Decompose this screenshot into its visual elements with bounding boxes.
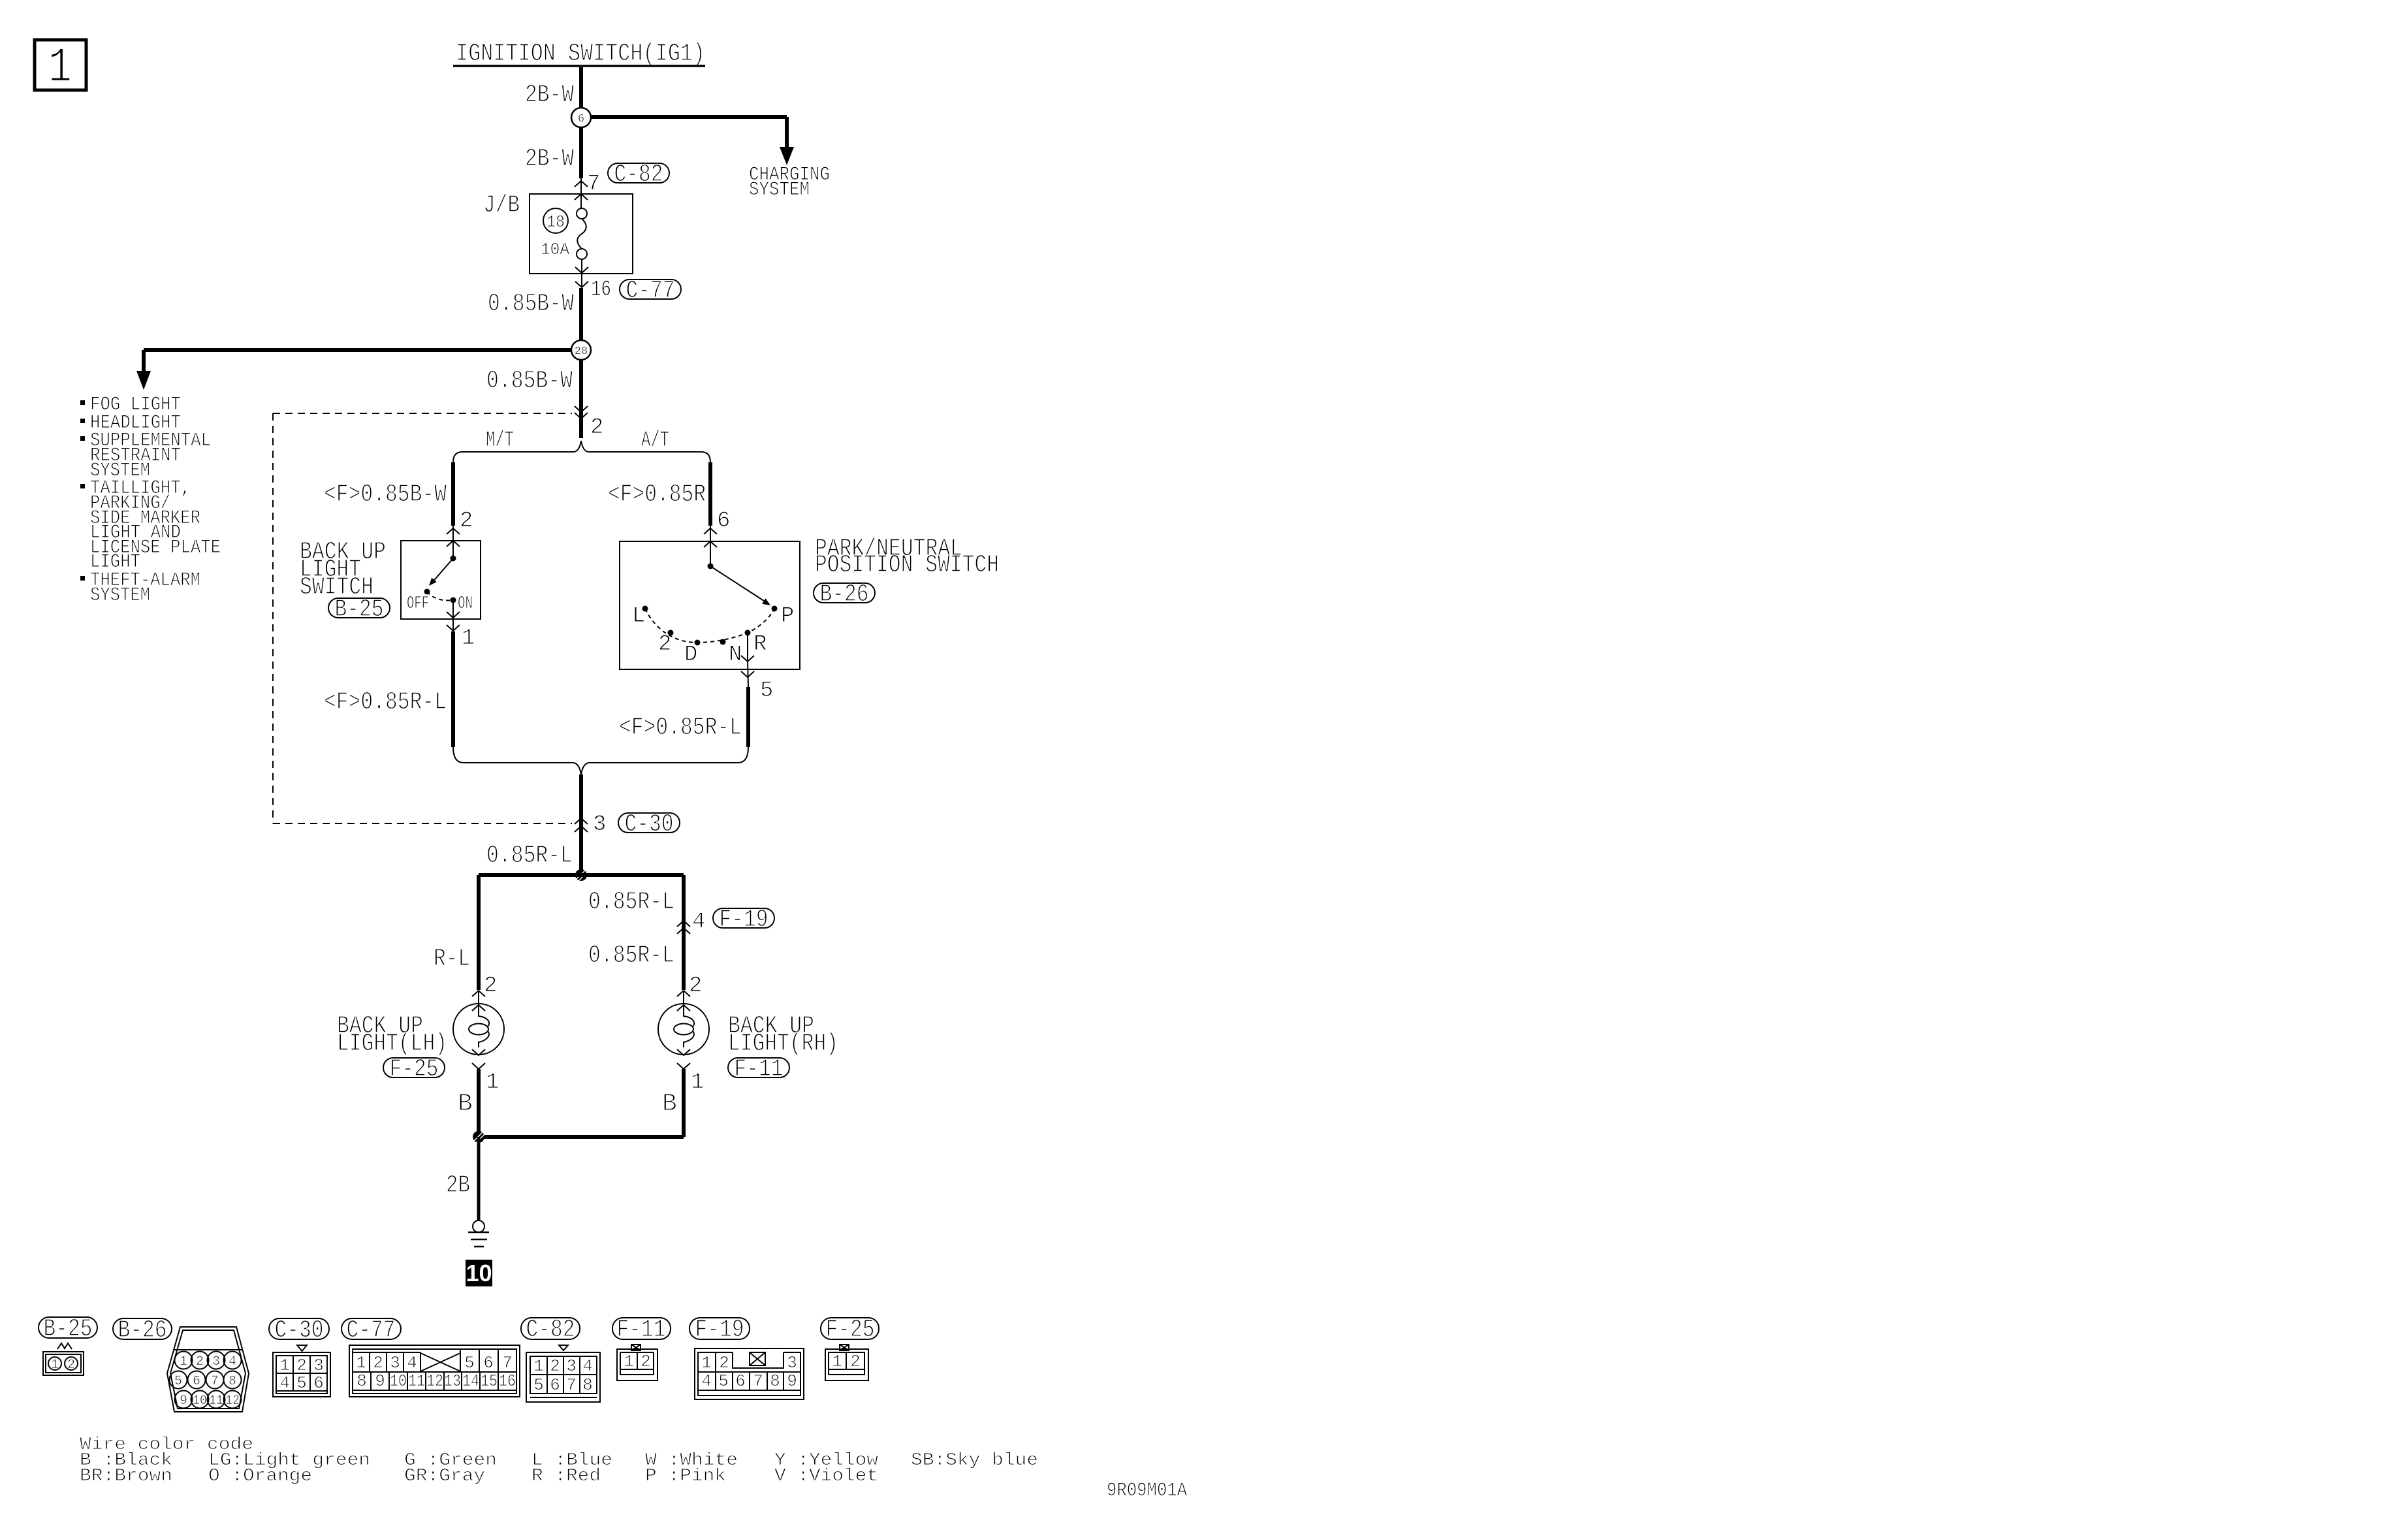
connector chevron F-25 pin 1 bbox=[472, 1063, 485, 1069]
connector ref F-11 beside lamp bbox=[728, 1058, 789, 1077]
svg-text:5: 5 bbox=[174, 1374, 182, 1389]
svg-text:6: 6 bbox=[578, 113, 584, 125]
svg-text:2: 2 bbox=[689, 974, 702, 998]
connector chevron C-30 pin 2 upper bbox=[575, 406, 588, 412]
wire M/T branch to merge bbox=[451, 631, 455, 747]
svg-text:6: 6 bbox=[483, 1353, 494, 1373]
svg-text:9: 9 bbox=[787, 1371, 797, 1391]
park/neutral position switch B-26 box bbox=[620, 541, 800, 669]
svg-text:C-30: C-30 bbox=[625, 810, 674, 838]
connector F-19 label bbox=[689, 1318, 750, 1339]
ground reference box 10 bbox=[466, 1260, 492, 1286]
connector ref B-26 bbox=[814, 583, 875, 603]
fuse 18 10A bbox=[543, 208, 568, 233]
svg-text:B: B bbox=[458, 1090, 473, 1118]
svg-text:N: N bbox=[729, 643, 742, 667]
connector B-26 label bbox=[113, 1318, 172, 1339]
connector chevron B-26 pin 5 lower bbox=[741, 671, 754, 677]
svg-text:2: 2 bbox=[67, 1358, 75, 1373]
svg-text:2B-W: 2B-W bbox=[525, 145, 574, 173]
svg-text:ON: ON bbox=[458, 594, 473, 614]
wire thin into switch bbox=[452, 526, 454, 558]
svg-text:2: 2 bbox=[550, 1356, 560, 1376]
svg-text:8: 8 bbox=[582, 1375, 593, 1395]
svg-text:2: 2 bbox=[484, 974, 497, 998]
svg-text:2B-W: 2B-W bbox=[525, 81, 574, 109]
svg-text:5: 5 bbox=[718, 1371, 729, 1391]
connector chevron C-77 pin 16 lower bbox=[575, 281, 588, 287]
svg-text:2: 2 bbox=[850, 1352, 861, 1371]
wire thin into PNP switch bbox=[710, 526, 711, 566]
svg-text:1: 1 bbox=[279, 1356, 290, 1375]
svg-text:F-11: F-11 bbox=[735, 1055, 784, 1083]
svg-text:4: 4 bbox=[229, 1354, 236, 1369]
connector ref B-25 bbox=[328, 598, 390, 618]
contact N bbox=[720, 639, 726, 645]
wire horizontal to both lamps bbox=[479, 873, 684, 877]
svg-text:5: 5 bbox=[296, 1373, 307, 1393]
connector C-30 pinout bbox=[297, 1345, 307, 1351]
svg-text:6: 6 bbox=[717, 509, 730, 534]
connector chevron F-25 pin 2 bbox=[472, 991, 485, 996]
svg-text:6: 6 bbox=[313, 1373, 324, 1393]
svg-text:15: 15 bbox=[481, 1371, 498, 1391]
RH bulb filament bbox=[684, 1007, 694, 1027]
switch blade bbox=[432, 558, 453, 583]
switch common contact bbox=[451, 556, 456, 562]
svg-text:3: 3 bbox=[787, 1353, 797, 1373]
connector chevron B-25 pin 1 lower bbox=[447, 625, 460, 631]
svg-text:J/B: J/B bbox=[483, 191, 520, 219]
svg-text:13: 13 bbox=[444, 1371, 461, 1391]
connector C-77 pinout bbox=[349, 1345, 520, 1397]
svg-text:OFF: OFF bbox=[407, 594, 429, 614]
connector chevron B-26 pin 6 upper bbox=[704, 528, 717, 534]
svg-text:0.85B-W: 0.85B-W bbox=[488, 290, 574, 318]
wire ignition switch to junction 6 bbox=[579, 67, 583, 108]
wire PNP R contact down bbox=[747, 633, 748, 661]
connector chevron F-11 pin 1 bbox=[677, 1063, 690, 1069]
svg-text:7: 7 bbox=[587, 172, 600, 197]
connector ref F-19 bbox=[713, 908, 774, 928]
svg-text:F-11: F-11 bbox=[617, 1316, 666, 1344]
connector F-25 label bbox=[821, 1318, 879, 1339]
svg-text:9: 9 bbox=[375, 1371, 385, 1391]
svg-text:6: 6 bbox=[735, 1371, 746, 1391]
svg-text:1: 1 bbox=[356, 1353, 366, 1373]
svg-text:IGNITION SWITCH(IG1): IGNITION SWITCH(IG1) bbox=[456, 40, 705, 68]
svg-text:LIGHT(LH): LIGHT(LH) bbox=[337, 1030, 447, 1058]
svg-text:7: 7 bbox=[566, 1375, 577, 1395]
page number box 1 bbox=[35, 40, 86, 90]
title underline bus bbox=[453, 65, 705, 67]
svg-text:14: 14 bbox=[462, 1371, 479, 1391]
svg-text:F-25: F-25 bbox=[390, 1055, 439, 1083]
wire ground bus horizontal bbox=[479, 1135, 684, 1139]
svg-text:9: 9 bbox=[180, 1394, 187, 1409]
wire A/T branch to PNP switch bbox=[708, 462, 712, 526]
svg-text:4: 4 bbox=[692, 910, 705, 934]
svg-text:1: 1 bbox=[462, 626, 475, 651]
PNP common contact bbox=[708, 564, 714, 569]
wire A/T branch to merge bbox=[746, 687, 750, 747]
connector chevron B-26 pin 5 at switch edge bbox=[741, 656, 754, 661]
wire branch to charging system bbox=[591, 115, 787, 119]
wire down to systems arrow bbox=[142, 350, 146, 372]
junction splice to back up lights bbox=[575, 869, 587, 881]
svg-text:1: 1 bbox=[48, 40, 72, 96]
svg-text:3: 3 bbox=[593, 812, 606, 837]
svg-text:10: 10 bbox=[193, 1394, 207, 1409]
svg-text:GR:Gray: GR:Gray bbox=[404, 1467, 485, 1486]
svg-text:<F>0.85R-L: <F>0.85R-L bbox=[619, 714, 742, 742]
connector chevron B-25 pin 2 at switch edge bbox=[447, 541, 460, 547]
connector F-25 pinout bbox=[840, 1345, 849, 1350]
svg-text:11: 11 bbox=[408, 1371, 425, 1391]
svg-text:SB:Sky blue: SB:Sky blue bbox=[911, 1451, 1038, 1471]
svg-text:11: 11 bbox=[209, 1394, 223, 1409]
svg-text:C-30: C-30 bbox=[275, 1316, 324, 1345]
svg-text:8: 8 bbox=[356, 1371, 367, 1391]
svg-text:3: 3 bbox=[313, 1356, 324, 1375]
svg-text:16: 16 bbox=[591, 278, 611, 302]
svg-text:1: 1 bbox=[691, 1070, 704, 1095]
wire RH lamp to ground bus bbox=[682, 1069, 686, 1137]
svg-text:R: R bbox=[753, 632, 767, 657]
svg-text:5: 5 bbox=[464, 1353, 475, 1373]
svg-text:9R09M01A: 9R09M01A bbox=[1107, 1480, 1187, 1502]
connector B-26 pinout bbox=[167, 1327, 249, 1412]
arrow to charging system bbox=[780, 147, 794, 165]
wire C-77 to M/T A/T split bbox=[579, 288, 583, 438]
contact 2 bbox=[668, 630, 674, 636]
connector chevron F-11 pin 2 bbox=[677, 991, 690, 996]
connector chevron C-77 pin 16 at J/B edge bbox=[575, 267, 588, 273]
wire LH lamp to ground bus bbox=[477, 1069, 481, 1137]
connector chevron C-30 pin 3 upper bbox=[575, 818, 588, 824]
svg-text:V :Violet: V :Violet bbox=[774, 1467, 878, 1486]
svg-text:10A: 10A bbox=[541, 240, 569, 259]
connector C-82 label bbox=[521, 1318, 580, 1339]
LH bulb filament bbox=[479, 1007, 489, 1027]
svg-text:D: D bbox=[684, 643, 697, 667]
svg-text:2: 2 bbox=[641, 1352, 651, 1371]
svg-text:2: 2 bbox=[590, 415, 603, 440]
svg-text:A/T: A/T bbox=[641, 428, 669, 453]
svg-text:8: 8 bbox=[770, 1371, 780, 1391]
svg-text:C-82: C-82 bbox=[614, 161, 663, 189]
contact P bbox=[772, 606, 778, 612]
svg-text:B-25: B-25 bbox=[44, 1315, 93, 1343]
svg-text:<F>0.85R-L: <F>0.85R-L bbox=[324, 688, 447, 716]
svg-text:2: 2 bbox=[296, 1356, 307, 1375]
svg-text:4: 4 bbox=[279, 1373, 290, 1393]
svg-text:1: 1 bbox=[832, 1352, 842, 1371]
connector ref C-30 bbox=[618, 813, 680, 833]
svg-text:0.85R-L: 0.85R-L bbox=[588, 942, 674, 970]
svg-text:R-L: R-L bbox=[434, 945, 470, 973]
connector ref C-77 bbox=[620, 279, 681, 299]
junction splice at ground bus bbox=[473, 1131, 484, 1143]
svg-text:SYSTEM: SYSTEM bbox=[749, 179, 810, 201]
back up light LH bulb F-25 bbox=[453, 1004, 504, 1055]
bottom merge brace bbox=[453, 747, 748, 774]
connector chevron C-82 pin 7 at J/B edge bbox=[575, 194, 588, 200]
svg-text:7: 7 bbox=[753, 1371, 763, 1391]
svg-text:R :Red: R :Red bbox=[531, 1467, 601, 1486]
connector F-11 label bbox=[612, 1318, 671, 1339]
svg-text:BR:Brown: BR:Brown bbox=[80, 1467, 172, 1486]
svg-text:7: 7 bbox=[211, 1374, 219, 1389]
svg-text:<F>0.85B-W: <F>0.85B-W bbox=[324, 481, 447, 509]
connector B-25 pinout bbox=[57, 1343, 72, 1349]
connector F-19 pinout bbox=[695, 1348, 804, 1399]
svg-text:C-77: C-77 bbox=[626, 277, 675, 305]
svg-text:4: 4 bbox=[582, 1356, 593, 1376]
svg-text:16: 16 bbox=[499, 1371, 516, 1391]
svg-text:4: 4 bbox=[701, 1371, 712, 1391]
wire merge to junction bbox=[579, 774, 583, 875]
top split brace bbox=[453, 441, 710, 462]
connector ref F-25 beside lamp bbox=[383, 1058, 445, 1077]
svg-text:3: 3 bbox=[566, 1356, 577, 1376]
svg-text:2: 2 bbox=[373, 1353, 383, 1373]
connector chevron B-25 pin 1 at switch edge bbox=[447, 612, 460, 618]
svg-text:B-26: B-26 bbox=[118, 1316, 167, 1345]
chevron at RH bulb top bbox=[677, 1005, 690, 1011]
contact R bbox=[745, 630, 751, 636]
svg-text:2: 2 bbox=[460, 509, 473, 534]
svg-text:F-19: F-19 bbox=[695, 1316, 744, 1344]
svg-text:5: 5 bbox=[533, 1375, 544, 1395]
svg-text:0.85B-W: 0.85B-W bbox=[486, 367, 573, 395]
back up light switch B-25 box bbox=[401, 541, 481, 619]
connector C-30 label bbox=[269, 1318, 329, 1339]
svg-text:1: 1 bbox=[624, 1352, 634, 1371]
ground symbol bbox=[473, 1220, 484, 1232]
svg-text:6: 6 bbox=[550, 1375, 560, 1395]
svg-text:8: 8 bbox=[229, 1374, 236, 1389]
wire to back up light LH bbox=[477, 875, 481, 990]
back up light RH bulb F-11 bbox=[658, 1004, 709, 1055]
junction 6 bbox=[571, 108, 591, 127]
chevron at RH bulb bottom bbox=[677, 1049, 690, 1055]
connector chevron B-25 pin 2 upper bbox=[447, 528, 460, 534]
wire switch output bbox=[452, 600, 454, 631]
svg-text:12: 12 bbox=[225, 1394, 240, 1409]
svg-text:1: 1 bbox=[486, 1070, 499, 1095]
svg-text:6: 6 bbox=[193, 1374, 200, 1389]
wire to ground bbox=[477, 1137, 481, 1220]
fuse element bbox=[577, 208, 587, 219]
svg-text:0.85R-L: 0.85R-L bbox=[588, 888, 674, 916]
svg-text:B-26: B-26 bbox=[820, 581, 869, 609]
svg-text:10: 10 bbox=[466, 1260, 492, 1286]
svg-text:<F>0.85R: <F>0.85R bbox=[608, 481, 706, 509]
chevron at LH bulb top bbox=[472, 1005, 485, 1011]
connector chevron B-26 pin 6 at switch edge bbox=[704, 541, 717, 547]
junction block J/B box bbox=[530, 194, 633, 274]
svg-text:2B: 2B bbox=[446, 1171, 470, 1200]
connector C-82 pinout bbox=[559, 1345, 568, 1350]
svg-text:F-25: F-25 bbox=[826, 1316, 875, 1344]
chevron at LH bulb bottom bbox=[472, 1049, 485, 1055]
svg-text:LIGHT(RH): LIGHT(RH) bbox=[728, 1030, 838, 1058]
svg-text:4: 4 bbox=[407, 1353, 417, 1373]
wire down to charging system arrow bbox=[785, 117, 789, 148]
svg-text:3: 3 bbox=[390, 1353, 400, 1373]
wire M/T branch to back up light switch bbox=[451, 462, 455, 526]
connector B-25 label bbox=[39, 1317, 97, 1338]
arrow to other systems bbox=[136, 371, 151, 390]
connector F-11 pinout bbox=[631, 1345, 641, 1350]
svg-text:O :Orange: O :Orange bbox=[208, 1467, 312, 1486]
PNP gate arc bbox=[645, 609, 774, 643]
svg-text:B: B bbox=[662, 1090, 677, 1118]
svg-text:0.85R-L: 0.85R-L bbox=[486, 842, 573, 870]
svg-text:P: P bbox=[781, 604, 794, 629]
dashed M/T-A/T option box bbox=[273, 413, 572, 414]
connector ref C-82 bbox=[608, 163, 669, 183]
svg-text:18: 18 bbox=[547, 212, 565, 232]
contact D bbox=[695, 640, 701, 646]
OFF contact bbox=[424, 589, 430, 595]
svg-text:10: 10 bbox=[390, 1371, 407, 1391]
connector chevron C-82 pin 7 upper bbox=[575, 181, 588, 187]
svg-text:C-82: C-82 bbox=[526, 1316, 575, 1344]
connector C-77 label bbox=[341, 1318, 401, 1339]
svg-text:2: 2 bbox=[719, 1353, 729, 1373]
svg-text:P :Pink: P :Pink bbox=[645, 1467, 726, 1486]
contact L bbox=[642, 606, 648, 612]
connector chevron C-30 pin 2 lower bbox=[575, 413, 588, 419]
junction 28 bbox=[571, 340, 591, 360]
connector chevron F-19 pin 4 lower bbox=[677, 928, 690, 934]
wire thin into J/B fuse bbox=[580, 178, 582, 209]
svg-text:2: 2 bbox=[196, 1354, 204, 1369]
svg-text:1: 1 bbox=[51, 1358, 59, 1373]
svg-text:5: 5 bbox=[760, 678, 773, 703]
PNP selector blade bbox=[710, 566, 768, 603]
svg-text:B-25: B-25 bbox=[335, 596, 384, 624]
wire fuse output bbox=[581, 259, 582, 287]
connector chevron F-19 pin 4 upper bbox=[677, 921, 690, 927]
svg-text:12: 12 bbox=[426, 1371, 443, 1391]
svg-text:7: 7 bbox=[502, 1353, 513, 1373]
svg-text:1: 1 bbox=[533, 1356, 544, 1376]
svg-text:POSITION SWITCH: POSITION SWITCH bbox=[815, 551, 999, 579]
list of connected systems bbox=[80, 400, 85, 405]
svg-text:3: 3 bbox=[212, 1354, 220, 1369]
svg-text:1: 1 bbox=[180, 1354, 187, 1369]
wire junction 6 to connector C-82 bbox=[579, 127, 583, 178]
wire to back up light RH bbox=[682, 875, 686, 990]
svg-text:F-19: F-19 bbox=[720, 906, 768, 934]
connector chevron C-30 pin 3 lower bbox=[575, 826, 588, 832]
ON contact bbox=[451, 598, 456, 603]
svg-text:M/T: M/T bbox=[486, 428, 514, 453]
svg-text:SYSTEM: SYSTEM bbox=[90, 584, 150, 607]
svg-text:L: L bbox=[632, 604, 645, 629]
svg-text:1: 1 bbox=[701, 1353, 712, 1373]
svg-text:28: 28 bbox=[575, 345, 588, 358]
svg-text:C-77: C-77 bbox=[347, 1316, 396, 1345]
wire branch to lighting systems bbox=[144, 348, 571, 352]
